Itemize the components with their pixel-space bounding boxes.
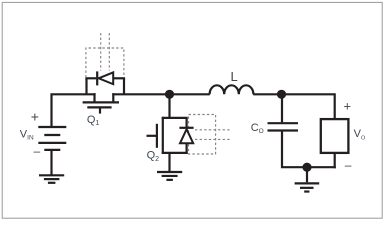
- wire: bottom rail to ground: [306, 167, 308, 182]
- svg-text:L: L: [231, 69, 238, 84]
- svg-text:+: +: [31, 109, 39, 125]
- wire: Vin bottom lead to ground: [50, 150, 52, 175]
- svg-text:–: –: [34, 144, 41, 158]
- transistor Q2 (low-side MOSFET, vertical): [147, 117, 188, 154]
- wire: inductor to node B to top-right corner, down to load: [253, 94, 335, 118]
- wire: Q1 drain to node A to inductor: [112, 93, 210, 95]
- dashed pin wire 2 of Q2: [195, 138, 231, 140]
- wire: load bottom lead: [334, 154, 336, 168]
- ground (below VIN): [39, 175, 64, 183]
- node C (bottom rail junction): [302, 163, 311, 172]
- dashed IC outline around Q1: [86, 48, 124, 78]
- dashed IC outline around Q2: [189, 115, 216, 155]
- node B (output node junction): [277, 90, 286, 99]
- voltage source VIN (battery): [38, 127, 66, 150]
- inductor L: [210, 85, 254, 94]
- node A (switch node junction): [165, 90, 174, 99]
- wire: node A down to Q2 drain: [168, 94, 170, 119]
- capacitor Co: [268, 123, 299, 130]
- dashed pin wire 1 of Q2: [195, 129, 231, 131]
- wire: Q2 source to ground: [168, 153, 170, 172]
- svg-text:–: –: [345, 158, 352, 172]
- svg-text:+: +: [344, 98, 352, 113]
- load Vo (output box): [321, 119, 349, 153]
- transistor Q1 (high-side MOSFET, horizontal): [83, 93, 119, 113]
- wire: capacitor bottom to bottom rail: [282, 131, 336, 168]
- body diode of Q1: [85, 71, 125, 94]
- ground (below Q2): [157, 172, 182, 180]
- ground (bottom right): [295, 183, 320, 191]
- body diode of Q2: [179, 118, 193, 154]
- wire: node B down to capacitor: [281, 94, 283, 122]
- dashed gate/pin wire 2 of Q1: [108, 33, 110, 71]
- dashed gate/pin wire 1 of Q1: [100, 33, 102, 71]
- wire: Vin top lead up and right to Q1 source: [52, 94, 96, 126]
